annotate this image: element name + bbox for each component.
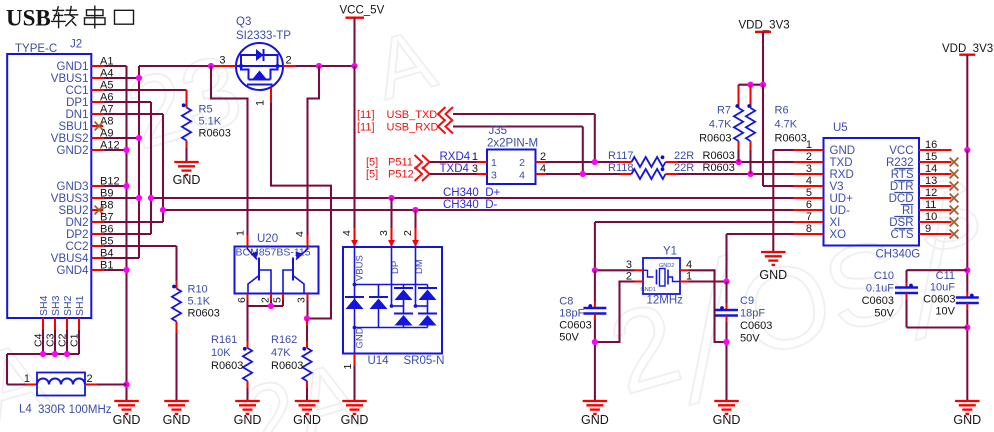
svg-text:XI: XI [830,217,841,229]
U5 pin 4 V3 [794,175,844,193]
junction dots SH bus [40,351,70,357]
svg-text:VBUS1: VBUS1 [51,73,89,85]
svg-text:1: 1 [472,151,478,163]
ground below L4 / J2 [113,401,141,427]
svg-text:SH1: SH1 [74,295,86,316]
svg-text:330R 100MHz: 330R 100MHz [38,404,112,416]
J2 pin A9 VBUS2 [51,128,114,146]
svg-text:5.1K: 5.1K [199,116,222,128]
wire VDD to R7/R6 tops [739,82,767,88]
svg-text:R0603: R0603 [199,128,231,140]
J2 pin B5 CC2 [65,236,113,254]
U5 pin 14 RTS [891,163,959,181]
svg-text:R161: R161 [211,334,237,346]
svg-text:[5]: [5] [366,157,378,169]
wire D- bus (DN1/DN2) [103,114,163,222]
svg-text:GND: GND [830,145,856,157]
wire VDD rail down to C11 [964,150,970,293]
svg-text:DN2: DN2 [65,217,88,229]
svg-text:4.7K: 4.7K [775,119,798,131]
svg-text:7: 7 [806,211,812,223]
net label TXD4 [430,163,477,175]
U14 pin1 to ground [342,354,355,402]
svg-text:GND: GND [759,268,787,282]
wire Y1 pin4 to C9 ground [689,270,727,342]
svg-text:R5: R5 [199,104,213,116]
svg-text:C1: C1 [69,333,81,347]
svg-text:CTS: CTS [891,229,914,241]
J2 pin A6 DP1 [66,92,113,110]
wire CC1 to R5 [103,90,186,108]
ground below R161 [234,401,262,427]
wire Y1 pin1 to C9/XO [689,278,730,284]
U5 pin 10 DSR [889,211,958,229]
svg-text:CH340G: CH340G [876,249,921,261]
U14 labels [368,355,445,367]
ground below C11 [953,401,981,427]
J2 pin A5 CC1 [65,80,113,98]
svg-text:C2: C2 [57,333,69,347]
title USB转串口 [6,6,134,31]
svg-text:5.1K: 5.1K [188,296,211,308]
wire U5 XO to crystal [727,234,794,282]
svg-text:4: 4 [294,231,306,237]
ground below U5 pin1 [759,252,787,282]
svg-text:4: 4 [686,259,692,271]
U5 pin 6 UD- [794,199,851,217]
svg-text:3: 3 [626,259,632,271]
svg-text:4: 4 [806,175,812,187]
svg-text:CH340_D+: CH340_D+ [443,187,500,199]
svg-text:C0603: C0603 [740,320,772,332]
svg-text:R0603: R0603 [775,133,807,145]
J2 pin A1 GND1 [57,56,114,74]
svg-text:A8: A8 [100,116,113,128]
svg-text:8: 8 [806,223,812,235]
U5 pin 1 GND [794,139,856,157]
J2 pin B8 SBU2 [58,200,113,218]
svg-text:R0603: R0603 [703,162,735,174]
svg-text:VCC: VCC [889,145,913,157]
svg-text:47K: 47K [271,347,291,359]
wire VCC to U20 pin1 [208,63,248,235]
svg-text:[11]: [11] [357,109,375,121]
svg-text:12MHz: 12MHz [647,295,684,307]
capacitor C9 [715,282,772,402]
port USB_RXD [357,120,583,175]
svg-text:3: 3 [472,163,478,175]
wire D+ bus (DP1/DP2) [103,102,151,234]
svg-text:1: 1 [255,100,267,106]
svg-text:6: 6 [236,297,248,303]
wire VBUS to U14 pin4 [351,66,358,247]
svg-text:R162: R162 [271,334,297,346]
wire SH pins to L4 [7,354,79,385]
svg-text:C11: C11 [936,270,955,282]
svg-text:C4: C4 [33,333,45,347]
J2 pin A7 DN1 [65,104,113,122]
wire Q3 gate to R162 and U20 pin3 [271,102,331,318]
svg-text:GND: GND [293,413,321,427]
svg-text:RXD: RXD [830,169,854,181]
svg-text:10uF: 10uF [930,282,955,294]
svg-text:18pF: 18pF [740,308,765,320]
wire Y1 pin3 to C8 [592,267,635,273]
J2 pin A4 VBUS1 [51,68,114,86]
svg-text:SBU2: SBU2 [58,205,88,217]
svg-text:R6: R6 [775,105,789,117]
net CH340_D- line [160,199,794,213]
svg-text:B8: B8 [100,200,113,212]
svg-text:0.1uF: 0.1uF [866,283,894,295]
wire D+ to U14 pin3 [388,198,395,247]
svg-text:DCD: DCD [889,193,914,205]
U5 pin 15 R232 [886,151,958,169]
svg-text:R0603: R0603 [188,308,220,320]
svg-text:DSR: DSR [889,217,913,229]
wire GND bus (GND1/GND2/GND3/GND4) [103,66,126,401]
svg-text:VDD_3V3: VDD_3V3 [739,20,790,32]
U5 pin 16 VCC [889,139,951,157]
net label RXD4 [430,151,477,163]
connector J35 2x2PIN-M [487,125,538,184]
wire CC2 to R10 [103,246,176,289]
svg-text:DP1: DP1 [66,97,88,109]
svg-text:GND: GND [713,413,741,427]
U5 pin 2 TXD [794,151,853,169]
J2 pin B9 VBUS3 [51,188,114,206]
port USB_TXD [357,107,595,162]
U14 pin numbers 4 3 2 [341,230,414,236]
J2 pin B1 GND4 [57,260,114,278]
J2 pin B4 VBUS4 [51,248,114,266]
svg-text:15: 15 [925,151,937,163]
wire U20 pins 6/2/5 junction [248,300,284,309]
svg-text:3: 3 [219,55,225,67]
J2 pin A12 GND2 [57,140,120,158]
Y1 pin stubs [626,259,692,283]
svg-text:12: 12 [925,187,937,199]
svg-text:DP2: DP2 [66,229,88,241]
svg-text:CH340_D-: CH340_D- [443,199,497,211]
svg-text:50V: 50V [874,308,894,320]
svg-text:2: 2 [806,151,812,163]
U20 pin stubs and numbers [235,230,308,303]
svg-text:[11]: [11] [357,122,375,134]
svg-text:3: 3 [378,230,390,236]
J2 pin C1 SH1 [69,295,87,354]
svg-text:DN1: DN1 [65,109,88,121]
U5 pin 7 XI [794,211,841,229]
resistor R161 [211,306,252,401]
svg-text:3: 3 [296,297,308,303]
svg-text:GND1: GND1 [57,61,89,73]
svg-text:GND: GND [163,413,191,427]
power VDD_3V3 left [739,20,790,85]
ground below C9 [713,401,741,427]
svg-text:USB_RXD: USB_RXD [387,122,439,134]
resistor R117 [608,150,735,167]
net CH340_D+ line [148,187,794,201]
svg-text:50V: 50V [740,333,760,345]
svg-text:SH3: SH3 [50,295,62,316]
svg-text:C10: C10 [874,270,894,282]
svg-text:UD+: UD+ [830,193,854,205]
svg-text:SBU1: SBU1 [58,121,88,133]
svg-text:VDD_3V3: VDD_3V3 [942,43,993,55]
svg-text:GND: GND [113,413,141,427]
connector J2 TYPE-C body [7,39,91,319]
ground below R10 [163,401,191,427]
svg-text:1: 1 [806,139,812,151]
svg-text:3: 3 [806,163,812,175]
U5 pin 8 XO [794,223,847,241]
svg-text:VBUS4: VBUS4 [51,253,89,265]
svg-text:GND: GND [355,327,366,348]
svg-text:[5]: [5] [366,169,378,181]
U5 pin 5 UD+ [794,187,854,205]
resistor R6 [746,85,807,174]
svg-text:VCC_5V: VCC_5V [340,5,385,17]
svg-text:2: 2 [286,55,292,67]
svg-text:RI: RI [902,205,914,217]
J2 pin C2 SH2 [57,295,75,354]
J2 pin A8 SBU1 [58,116,113,134]
ground below U14 [341,401,369,427]
capacitor C10 [862,270,968,328]
svg-text:U5: U5 [833,122,848,134]
svg-text:TYPE-C: TYPE-C [15,43,57,55]
U5 pin 12 DCD [889,187,959,205]
port P511 [366,155,430,169]
J35 pin stubs [472,151,546,175]
svg-text:4: 4 [341,230,353,236]
svg-text:VBUS2: VBUS2 [51,133,89,145]
wire VBUS bus (VBUS1..4) to Q3 pin3 [103,66,214,258]
wire R117 to U5 TXD [678,159,794,165]
transistor U20 BCM857BS-115 [235,233,319,294]
power VDD_3V3 right [942,43,993,150]
junction dot VCC rail / U14 VBUS [351,63,357,69]
svg-text:P512: P512 [388,169,414,181]
svg-text:2: 2 [402,230,414,236]
svg-text:SR05-N: SR05-N [404,355,445,367]
svg-text:2: 2 [87,373,93,385]
Q3 pin stubs [215,55,355,107]
svg-text:16: 16 [925,139,937,151]
svg-text:4: 4 [519,170,525,182]
svg-text:13: 13 [925,175,937,187]
J2 pin C4 SH4 [33,295,51,354]
wire J35 pin2 to R117 [546,159,620,165]
svg-text:GND3: GND3 [57,181,89,193]
svg-text:9: 9 [925,223,931,235]
svg-text:GND1: GND1 [641,287,656,293]
svg-text:2: 2 [519,157,525,169]
capacitor C11 [923,270,979,401]
svg-text:C3: C3 [45,333,57,347]
svg-text:USB_TXD: USB_TXD [387,109,438,121]
svg-text:22R: 22R [674,162,694,174]
svg-text:R0603: R0603 [271,360,303,372]
svg-text:10V: 10V [935,306,955,318]
svg-text:C0603: C0603 [862,295,894,307]
svg-text:R0603: R0603 [703,150,735,162]
svg-text:RTS: RTS [891,169,914,181]
svg-text:USB: USB [6,6,51,31]
svg-text:Y1: Y1 [663,246,677,258]
J2 pin B12 GND3 [57,176,120,194]
svg-text:1: 1 [235,230,247,236]
svg-text:C0603: C0603 [559,320,591,332]
svg-text:GND: GND [953,413,981,427]
svg-text:TXD: TXD [830,157,853,169]
svg-text:GND4: GND4 [57,265,90,277]
svg-text:GND: GND [581,413,609,427]
svg-text:U14: U14 [368,355,390,367]
svg-text:5: 5 [272,297,284,303]
svg-text:6: 6 [806,199,812,211]
diode array U14 SR05-N body [343,247,442,354]
svg-text:GND: GND [341,413,369,427]
svg-text:10: 10 [925,211,937,223]
svg-text:2: 2 [260,297,272,303]
svg-text:GND: GND [173,173,201,187]
svg-text:A: A [364,11,445,118]
svg-text:SH4: SH4 [38,295,50,316]
svg-text:SI2333-TP: SI2333-TP [236,30,291,42]
port P512 [366,167,430,181]
ground below C8 [581,401,609,427]
svg-text:SH2: SH2 [62,295,74,316]
ground below R162 [293,401,321,427]
svg-text:R118: R118 [608,162,633,174]
svg-text:DTR: DTR [890,181,914,193]
svg-text:GND: GND [234,413,262,427]
svg-text:5: 5 [806,187,812,199]
svg-text:1: 1 [24,373,30,385]
junction dots VBUS bus [136,75,142,201]
svg-text:VBUS: VBUS [355,255,366,281]
J2 pin B7 DN2 [65,212,113,230]
junction dots GND bus [123,147,129,388]
wire R118 to U5 RXD [678,171,794,177]
transistor Q3 SI2333-TP [236,16,291,90]
svg-text:UD-: UD- [830,205,851,217]
J2 pin B6 DP2 [66,224,113,242]
inductor L4 [19,373,127,417]
svg-text:Q3: Q3 [236,16,251,28]
svg-text:R10: R10 [188,284,208,296]
svg-text:C0603: C0603 [923,294,955,306]
svg-text:11: 11 [925,199,936,211]
U5 pin 9 CTS [891,223,959,241]
svg-text:U20: U20 [257,233,278,245]
svg-text:C9: C9 [740,295,754,307]
U5 pin 13 DTR [890,175,959,193]
svg-text:CC2: CC2 [65,241,88,253]
resistor R7 [699,86,743,162]
resistor R118 [608,162,735,179]
J2 pin C3 SH3 [45,295,63,354]
IC U5 CH340G body [824,122,921,261]
svg-text:P511: P511 [388,157,413,169]
U5 pin 3 RXD [794,163,854,181]
svg-text:1: 1 [491,157,497,169]
svg-text:R0603: R0603 [211,360,243,372]
resistor R5 [182,103,231,162]
svg-text:50V: 50V [559,332,579,344]
U5 pin 11 RI [901,199,959,217]
svg-text:18pF: 18pF [559,308,584,320]
resistor R10 [172,284,220,402]
junction dot VDD/VCC pin16 [964,147,970,153]
svg-text:R117: R117 [608,150,633,162]
svg-text:22R: 22R [674,150,694,162]
ground below R5 [173,162,201,187]
wire VCC to U20 pin4 [308,63,323,235]
wire U20 pin3 to R162 junction [304,300,310,322]
wire J35 pin4 to R118 [546,171,620,177]
wire U5 pin1 GND [773,150,793,252]
svg-text:J2: J2 [70,39,82,51]
svg-text:4.7K: 4.7K [709,119,732,131]
svg-text:10K: 10K [211,347,231,359]
svg-text:14: 14 [925,163,937,175]
crystal Y1 12MHz [641,246,684,307]
svg-text:R7: R7 [717,105,731,117]
svg-text:R0603: R0603 [699,133,731,145]
svg-text:2: 2 [540,151,546,163]
svg-text:GND2: GND2 [57,145,89,157]
svg-text:4: 4 [540,163,546,175]
svg-text:CC1: CC1 [65,85,88,97]
svg-text:1: 1 [342,364,354,370]
svg-text:J35: J35 [489,125,508,137]
wire U5 XI to crystal [595,222,794,270]
wire D- to U14 pin2 [412,210,419,247]
wire VDD to U5 V3 pin4 [763,85,794,186]
svg-text:VBUS3: VBUS3 [51,193,89,205]
resistor R162 [271,319,312,402]
svg-text:2x2PIN-M: 2x2PIN-M [487,138,538,150]
svg-text:3: 3 [491,170,497,182]
svg-text:L4: L4 [19,404,32,416]
power VCC_5V [340,5,385,67]
capacitor C8 [559,270,606,401]
svg-text:XO: XO [830,229,847,241]
svg-text:C8: C8 [559,296,573,308]
svg-text:V3: V3 [830,181,844,193]
svg-text:R232: R232 [886,157,914,169]
wire Y1 pin2 to C8 ground [595,282,635,343]
